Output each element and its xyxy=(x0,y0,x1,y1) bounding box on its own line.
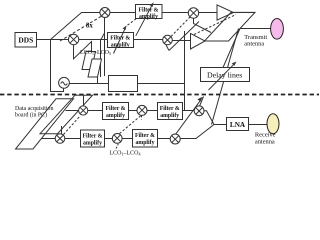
wire board to M5 xyxy=(66,110,79,112)
LNA U2 xyxy=(227,118,249,131)
arrow M10 tuning xyxy=(175,97,202,135)
wire M5 to F3 xyxy=(88,110,103,112)
wire M6 to F5 xyxy=(147,110,158,112)
label receive antenna xyxy=(255,132,276,146)
wire F4b to M10 xyxy=(158,138,171,140)
wire delay tap S2 xyxy=(223,29,240,68)
wire delay to M9 xyxy=(200,97,204,107)
svg-text:Filter &: Filter & xyxy=(105,106,125,112)
wire 8x LO dashed xyxy=(60,16,101,41)
label data acquisition board xyxy=(15,106,53,119)
LCO bank parallelogram 2 xyxy=(88,59,102,77)
filter F3 xyxy=(103,103,129,120)
mixer M9 xyxy=(194,106,204,116)
receive antenna xyxy=(267,114,279,134)
mixer M6 xyxy=(137,105,147,115)
wire M4 drop xyxy=(166,45,169,51)
mixer M2 xyxy=(100,8,110,18)
box B1 xyxy=(109,76,138,92)
wire diagonal to upconversion chain xyxy=(51,13,100,40)
wire DDS output bus xyxy=(37,39,108,41)
DAQ board B xyxy=(40,95,93,134)
svg-text:amplify: amplify xyxy=(111,42,130,48)
transmit antenna xyxy=(271,19,284,40)
wire M4 to A2 xyxy=(172,40,190,42)
wire LNA to receive antenna xyxy=(249,124,268,126)
wire F5 to M9 xyxy=(183,110,195,112)
svg-text:8x: 8x xyxy=(86,23,93,30)
PC boundary dashed xyxy=(0,94,319,96)
svg-text:Delay lines: Delay lines xyxy=(207,71,242,80)
svg-text:amplify: amplify xyxy=(106,113,125,119)
wire junction vertical to oscillator xyxy=(51,40,64,92)
dashed label to M8 xyxy=(116,144,118,149)
mixer M3 xyxy=(188,8,198,18)
wire bank diagonal A xyxy=(169,22,199,51)
dashed link F2 to F1 xyxy=(128,19,137,25)
svg-text:Filter &: Filter & xyxy=(160,106,180,112)
wire M2 to F1 xyxy=(110,12,136,14)
DDS U1 xyxy=(15,33,37,48)
mixer M10 xyxy=(170,134,180,144)
wire LCO bank to reference bus xyxy=(97,77,99,84)
label transmit antenna xyxy=(244,34,267,48)
wire M8 to F4b xyxy=(122,138,132,140)
svg-text:antenna: antenna xyxy=(244,41,264,48)
wire F4a to M8 xyxy=(105,138,113,140)
wire LCO bank riser B xyxy=(101,17,105,39)
wire M9 to LNA node xyxy=(204,111,214,125)
wire F3 to M6 xyxy=(129,110,138,112)
amplifier A2 xyxy=(191,33,206,49)
svg-text:amplify: amplify xyxy=(135,140,154,146)
svg-text:amplify: amplify xyxy=(139,14,158,20)
wire A1 to antenna node xyxy=(234,12,256,14)
svg-text:LCO1–LCO5: LCO1–LCO5 xyxy=(80,50,111,56)
dashed LO M5 to M7 xyxy=(64,116,81,135)
mixer M4 xyxy=(163,35,173,45)
dashed control line D2 xyxy=(194,15,236,35)
mixer M7 xyxy=(55,134,65,144)
wire osc to box xyxy=(69,83,108,85)
amplifier A1 xyxy=(217,5,234,20)
LCO bank parallelogram 1 xyxy=(82,52,96,70)
svg-text:Data acquisition: Data acquisition xyxy=(15,106,53,112)
wire reference riser xyxy=(184,31,186,111)
svg-text:amplify: amplify xyxy=(160,113,179,119)
svg-text:LCO1–LCO4: LCO1–LCO4 xyxy=(110,150,141,156)
svg-text:antenna: antenna xyxy=(255,138,275,145)
filter F4a xyxy=(81,130,105,147)
wire LCO bank riser A xyxy=(100,40,102,78)
wire F1 to M3 xyxy=(162,12,188,14)
dashed M6 LO stub xyxy=(141,115,143,119)
wire M10 to LNA node xyxy=(180,125,214,139)
wire M1 LO drop xyxy=(74,42,92,59)
tuning arrow delay lines xyxy=(209,62,237,91)
filter F4b xyxy=(133,130,158,148)
tuning arrow F1 xyxy=(136,2,154,36)
wire node to LNA xyxy=(214,124,227,126)
wire M7 top stub xyxy=(61,126,63,134)
wire F2 to M4 xyxy=(134,39,163,41)
tuning arrow F2 xyxy=(114,25,127,53)
mixer M5 xyxy=(79,106,88,115)
wire long tap L1 to LNA xyxy=(212,29,239,125)
mixer M1 xyxy=(68,34,78,44)
svg-text:Filter &: Filter & xyxy=(135,133,155,139)
svg-text:amplify: amplify xyxy=(83,141,102,147)
svg-text:DDS: DDS xyxy=(18,36,33,45)
dashed LO M4 to M3 xyxy=(171,17,190,37)
oscillator X1 xyxy=(59,77,70,88)
mixer M8 xyxy=(112,134,122,144)
wire box B1 to riser xyxy=(138,83,185,85)
filter F2 (Filter & amplify lower) xyxy=(108,33,134,49)
svg-text:Filter &: Filter & xyxy=(82,134,102,140)
DAQ board A xyxy=(16,99,74,149)
filter F1 (Filter & amplify upper) xyxy=(136,5,163,21)
wire to transmit antenna xyxy=(240,28,271,30)
wire M3 to A1 xyxy=(199,12,217,14)
wire M7 to F4a xyxy=(65,138,81,140)
switch bank parallelogram P1 xyxy=(205,12,256,41)
wire M3 drop xyxy=(194,18,212,32)
svg-text:LNA: LNA xyxy=(230,121,246,129)
wire board to M7 xyxy=(42,138,56,140)
delay lines box xyxy=(201,68,250,82)
svg-text:board (in PC): board (in PC) xyxy=(15,112,47,119)
dashed LO M8 to M6 xyxy=(120,116,142,134)
wire M5 riser xyxy=(83,95,85,106)
filter F5 xyxy=(158,103,183,120)
